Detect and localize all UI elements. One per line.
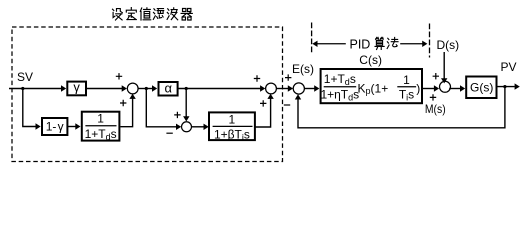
wire: D(s) disturbance down into S5 top — [441, 52, 447, 83]
wire: S1 to alpha block — [138, 85, 157, 91]
plus sign: S2 top input — [174, 112, 180, 118]
label: title 设定值滤波器 (drawn as paths) — [113, 8, 193, 20]
svg-text:1: 1 — [97, 112, 104, 126]
plus sign: S5 top input (below) — [430, 94, 436, 100]
wire: S2 to beta-Ti block — [192, 124, 209, 130]
plus sign: S1 left input — [116, 73, 122, 79]
summing junction S4 (error) — [293, 83, 304, 94]
wire: Td block output up into S1 bottom — [120, 94, 135, 127]
label SV — [17, 70, 33, 84]
wire: 1-gamma to Td filter block — [67, 123, 80, 129]
block 1-gamma — [42, 118, 67, 135]
minus sign: S2 left input — [166, 132, 172, 134]
minus sign: S4 bottom input — [284, 104, 290, 106]
label C(s) — [359, 53, 382, 67]
dimension arrow: PID right — [400, 41, 427, 47]
label M(s) — [425, 102, 446, 116]
label D(s) — [437, 38, 460, 52]
dimension arrow: PID left — [312, 41, 346, 47]
svg-text:M(s): M(s) — [425, 102, 446, 116]
summing junction S1 — [127, 83, 138, 94]
wire: SV input main line — [9, 85, 66, 91]
plus sign: S3 left input — [254, 75, 260, 81]
svg-text:1+Tds: 1+Tds — [324, 72, 356, 87]
summing junction S3 — [266, 83, 277, 94]
svg-text:PV: PV — [501, 60, 517, 74]
wire: branch before alpha down to summing junction S2 left — [146, 89, 181, 131]
svg-text:γ: γ — [73, 80, 80, 95]
block gamma — [67, 80, 86, 96]
node: branch dot after SV — [21, 87, 24, 90]
plus sign: S1 bottom input — [120, 100, 126, 106]
wire: gamma block to summing junction S1 — [87, 85, 127, 91]
svg-text:C(s): C(s) — [359, 53, 382, 67]
plus sign: S3 bottom input — [260, 100, 266, 106]
block C(s) controller — [320, 69, 422, 103]
dashed box: setpoint filter boundary — [12, 27, 283, 162]
wire: feedback from output down, left, and up into S4 bottom — [295, 87, 505, 128]
node: output branch dot — [503, 85, 506, 88]
wire: S4 to C(s) controller block — [304, 85, 319, 91]
plus sign: S4 left input — [285, 74, 291, 80]
block G(s) plant — [466, 77, 496, 99]
svg-text:1: 1 — [403, 73, 410, 87]
svg-text:1+Tds: 1+Tds — [85, 127, 117, 142]
dashed tick: PID bracket right — [429, 24, 431, 58]
wire: branch after alpha down into S2 top — [183, 89, 189, 122]
svg-text:1+ηTds: 1+ηTds — [320, 88, 359, 103]
wire: C(s) to summing junction S5 — [422, 85, 439, 91]
dashed tick: PID bracket left — [311, 23, 313, 54]
wire: alpha block to summing junction S3 — [178, 85, 266, 91]
label E(s) — [292, 62, 314, 76]
node: branch dot between S1 and alpha — [145, 87, 148, 90]
svg-text:Kp(1+: Kp(1+ — [358, 82, 389, 97]
wire: G(s) output to PV — [498, 83, 520, 89]
wire: S5 to G(s) plant block — [449, 85, 465, 91]
summing junction S2 — [182, 122, 192, 132]
node: branch dot after alpha — [185, 87, 188, 90]
wire: beta-Ti block output up into S3 bottom — [255, 94, 274, 127]
block 1/(1+Tds) — [82, 112, 120, 142]
plus sign: S5 left input — [433, 73, 439, 79]
svg-text:PID: PID — [350, 37, 371, 51]
label PID算法 — [350, 37, 399, 51]
wire: S3 to summing junction S4 — [276, 85, 293, 91]
svg-text:1-γ: 1-γ — [46, 120, 64, 134]
svg-text:E(s): E(s) — [292, 62, 314, 76]
block alpha — [159, 80, 178, 95]
svg-text:): ) — [416, 82, 420, 96]
svg-text:SV: SV — [17, 70, 33, 84]
svg-text:1+βTis: 1+βTis — [214, 127, 250, 142]
summing junction S5 (disturbance) — [440, 81, 451, 92]
svg-text:D(s): D(s) — [437, 38, 460, 52]
svg-text:G(s): G(s) — [470, 80, 493, 94]
svg-text:α: α — [164, 80, 172, 95]
block 1/(1+bTis) — [209, 112, 255, 142]
wire: branch down to 1-gamma block — [23, 89, 41, 130]
svg-text:1: 1 — [229, 112, 236, 126]
label PV — [501, 60, 517, 74]
